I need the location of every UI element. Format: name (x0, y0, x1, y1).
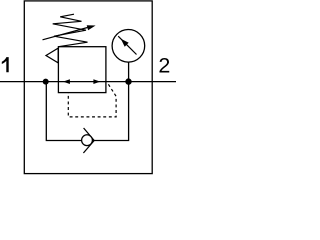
enclosure frame (24, 1, 152, 174)
spring zigzag (53, 14, 88, 47)
check valve ball (82, 135, 93, 146)
port label 1 (2, 57, 9, 72)
junction dot left (43, 79, 49, 85)
gauge needle head (121, 39, 129, 47)
gauge stem (128, 62, 130, 82)
pilot dashed line (68, 84, 116, 117)
adjustment arrow shaft (43, 28, 88, 40)
right flow arrowhead (93, 79, 100, 84)
feedback loop U line (46, 82, 128, 141)
check valve seat lower line (83, 141, 94, 154)
main flow line 1-2 (0, 81, 176, 83)
check valve seat upper line (84, 128, 95, 141)
gauge needle shaft (118, 36, 136, 54)
vent triangle (46, 48, 58, 63)
junction dot right (gauge tap) (125, 78, 131, 84)
adjustment arrowhead (87, 25, 96, 30)
gauge body (112, 30, 145, 63)
svg-text:2: 2 (158, 53, 170, 77)
left flow arrowhead (63, 79, 70, 84)
regulator valve box (58, 47, 106, 93)
